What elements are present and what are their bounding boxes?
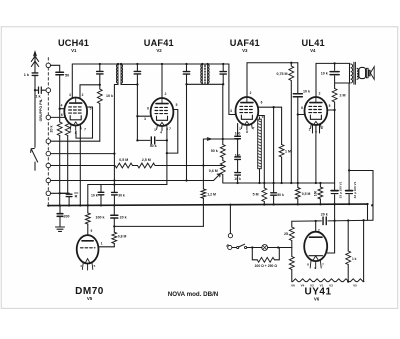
V4 plate lead: [315, 63, 317, 97]
svg-text:9: 9: [91, 229, 93, 233]
svg-text:1: 1: [154, 128, 156, 132]
svg-text:0,75 M: 0,75 M: [277, 72, 288, 76]
wire T2 cap down to AF line: [186, 84, 188, 180]
wire plate rail 3 (V4): [316, 62, 350, 64]
capacitor R: [68, 192, 70, 195]
terminal circle y=141.2: [46, 139, 51, 144]
terminal circle y=180.5: [46, 178, 51, 183]
svg-text:20 k: 20 k: [120, 215, 127, 219]
resistor 0,5M horizontal: [115, 163, 133, 168]
svg-text:1 k: 1 k: [24, 73, 30, 77]
svg-text:100 k: 100 k: [96, 216, 105, 220]
wire antenna down: [34, 76, 36, 148]
svg-text:6: 6: [301, 106, 303, 110]
svg-text:2: 2: [318, 229, 320, 233]
resistor 100k: [87, 205, 89, 213]
svg-text:5: 5: [329, 104, 331, 108]
wire T1 to V2 grid: [136, 85, 138, 141]
svg-text:8: 8: [246, 130, 248, 134]
svg-text:4: 4: [160, 131, 162, 135]
wire cathode bias row y=184.5: [88, 185, 167, 206]
wire DM70 pin1: [98, 246, 114, 248]
wire V1 feedback hook: [76, 107, 93, 138]
wire V3 pin6 AVC: [258, 106, 281, 108]
wire resistors down: [60, 136, 69, 206]
svg-text:V3: V3: [242, 48, 248, 53]
IF transformer T2: [202, 63, 207, 66]
wire rail to V3 grid: [229, 64, 236, 115]
wire x=273.6 down: [273, 107, 275, 183]
V1 pin2 lead: [80, 85, 100, 98]
wire row y=180.5: [51, 180, 214, 182]
wire right branch: [349, 171, 373, 221]
terminal circle y=193.3: [46, 191, 51, 196]
ground bus: [48, 204, 367, 206]
svg-text:100 Ω + 250 Ω: 100 Ω + 250 Ω: [255, 264, 278, 268]
tube V4 UL41: [305, 97, 328, 130]
svg-text:10 k: 10 k: [321, 72, 328, 76]
capacitor 160 a: [237, 124, 239, 136]
svg-text:5 M: 5 M: [253, 193, 259, 197]
capacitor T2 secondary: [222, 64, 224, 71]
wire V4 grid: [297, 113, 299, 115]
ballast resistor 100+250 ohm: [252, 248, 257, 260]
svg-text:0,5 M: 0,5 M: [302, 192, 311, 196]
capacitor 20k f: [322, 217, 324, 225]
svg-text:6: 6: [147, 107, 149, 111]
svg-text:33 µ 150 V1: 33 µ 150 V1: [339, 181, 343, 198]
B+ line y=221: [292, 220, 373, 221]
resistor 0,5M grid leak: [297, 115, 299, 188]
wire grid V1: [51, 116, 65, 118]
wire bus end stub: [367, 204, 369, 220]
wire V1 pin4: [60, 109, 65, 122]
svg-text:30 k: 30 k: [118, 194, 125, 198]
svg-text:V4: V4: [310, 48, 316, 53]
terminal circle y=65.3: [46, 63, 51, 68]
wire T1 left coil down spine: [114, 83, 118, 84]
terminal circle y=90.2: [46, 88, 51, 93]
resistor 0,8M: [112, 232, 117, 243]
svg-text:1 M: 1 M: [285, 150, 291, 154]
wire T1 right coil down: [121, 83, 137, 85]
svg-text:50 k: 50 k: [277, 193, 284, 197]
svg-text:V5: V5: [87, 296, 93, 301]
wire V2 cathode down: [166, 128, 168, 185]
electrolytic 33u b: [348, 170, 350, 190]
resistor 25: [291, 221, 293, 227]
svg-text:7: 7: [322, 126, 324, 130]
wire V4 cathode down: [315, 125, 317, 183]
terminal circle y=165.5: [46, 163, 51, 168]
svg-text:UAF41: UAF41: [230, 38, 260, 48]
capacitor 10k coupling V4: [297, 63, 299, 93]
svg-text:1 k: 1 k: [352, 257, 357, 261]
resistor 50k: [222, 139, 224, 145]
svg-text:R: R: [75, 195, 78, 199]
V3 plate lead: [246, 63, 248, 97]
mains input wire: [229, 205, 231, 234]
svg-text:6: 6: [61, 113, 63, 117]
capacitor 10k d: [100, 185, 102, 193]
terminal circle y=117.4: [46, 115, 51, 120]
svg-text:2 M: 2 M: [340, 94, 346, 98]
tube V3 UAF41: [236, 97, 259, 130]
resistor 1k heater: [346, 251, 351, 265]
svg-text:2: 2: [319, 92, 321, 96]
wire diode load y=139: [203, 138, 237, 140]
wire heater return: [363, 220, 365, 281]
svg-text:10 k: 10 k: [234, 177, 241, 181]
wire plate rail 2 (V3): [247, 62, 298, 64]
svg-text:1: 1: [101, 242, 103, 246]
svg-text:20 k: 20 k: [50, 126, 54, 133]
pot wiper arrow: [214, 174, 221, 181]
tube V2 UAF41: [151, 98, 174, 131]
electrolytic 33u a: [331, 190, 338, 192]
svg-text:V6: V6: [314, 297, 320, 302]
svg-text:160: 160: [235, 132, 241, 136]
svg-text:UAF41: UAF41: [144, 38, 174, 48]
mains terminal b: [228, 245, 232, 249]
svg-text:50 k: 50 k: [150, 144, 157, 148]
svg-text:1: 1: [239, 127, 241, 131]
wire row y=153.6: [51, 153, 115, 155]
svg-text:160: 160: [313, 191, 317, 197]
band switch S: [31, 148, 38, 170]
mains terminal a: [228, 234, 232, 238]
svg-text:1: 1: [309, 128, 311, 132]
svg-text:6: 6: [261, 101, 263, 105]
svg-text:3: 3: [230, 109, 232, 113]
wire T2 bottom: [187, 83, 224, 84]
pilot lamp: [262, 245, 268, 251]
wire row y=165.5 volume: [51, 165, 115, 167]
ground: [56, 226, 65, 228]
resistor 1M: [281, 107, 283, 144]
capacitor 20k e: [113, 205, 115, 215]
svg-text:10 k: 10 k: [106, 94, 113, 98]
capacitor T2 primary: [186, 64, 188, 71]
resistor heater dropper: [291, 248, 293, 257]
svg-text:3: 3: [325, 249, 327, 253]
capacitor 200: [59, 205, 61, 213]
resistor 160: [319, 183, 321, 187]
wire V2 pin5 box: [167, 110, 178, 154]
capacitor 30k: [112, 191, 118, 193]
resistor 2M: [332, 89, 337, 103]
wire row y=193.3: [51, 192, 70, 194]
svg-text:32 µ 160 V1: 32 µ 160 V1: [353, 181, 357, 198]
resistor 1,2M: [202, 139, 204, 189]
svg-text:2: 2: [165, 92, 167, 96]
detector coil hatched: [259, 117, 261, 119]
svg-text:5: 5: [176, 103, 178, 107]
signal rail y=183: [223, 182, 335, 184]
capacitor 1k antenna: [34, 71, 36, 73]
svg-text:7: 7: [169, 127, 171, 131]
potentiometer 0,6M: [220, 161, 225, 175]
svg-text:20 k: 20 k: [321, 213, 328, 217]
output transformer: [349, 63, 351, 83]
capacitor 50k cathode: [137, 139, 150, 141]
svg-text:50: 50: [65, 73, 69, 77]
svg-text:4: 4: [61, 104, 63, 108]
svg-text:1,2 M: 1,2 M: [207, 192, 216, 196]
svg-text:V5: V5: [353, 283, 357, 287]
svg-text:UL41: UL41: [302, 38, 325, 48]
V1 pin3 lead = rail corner: [71, 64, 73, 98]
power switch: [232, 247, 237, 249]
resistor 10k: [97, 89, 102, 104]
capacitor 160 b: [235, 156, 241, 158]
wire plate rail 1: [72, 63, 229, 65]
svg-text:2,5 M: 2,5 M: [142, 158, 151, 162]
capacitor 50k b: [273, 183, 275, 192]
capacitor T1 primary: [99, 64, 101, 71]
speaker: [357, 68, 358, 79]
svg-text:0,5 M: 0,5 M: [119, 158, 128, 162]
svg-text:0,8 M: 0,8 M: [118, 235, 127, 239]
tube V5 DM70: [77, 235, 99, 270]
IF transformer T1: [118, 63, 121, 66]
resistor 20k a: [57, 122, 62, 136]
resistor 5M: [263, 183, 265, 188]
svg-text:10 k: 10 k: [91, 194, 98, 198]
capacitor 10k output: [330, 71, 339, 73]
wire V3 pin5 diode: [258, 116, 265, 184]
svg-text:10 k: 10 k: [303, 90, 310, 94]
svg-text:2: 2: [250, 91, 252, 95]
capacitor T1 secondary: [136, 64, 138, 71]
svg-text:V6: V6: [291, 283, 295, 287]
capacitor 10k c: [235, 172, 241, 174]
tube V6 UY41: [304, 232, 327, 269]
svg-text:3: 3: [69, 93, 71, 97]
svg-text:V2: V2: [156, 48, 162, 53]
svg-text:0,6 M: 0,6 M: [209, 169, 218, 173]
resistor 2,5M horizontal: [138, 163, 156, 168]
wire V1 cathode down: [79, 126, 81, 205]
svg-text:50 k: 50 k: [211, 149, 218, 153]
svg-text:UCH41: UCH41: [58, 38, 89, 48]
resistor 0,75M: [290, 62, 292, 64]
resistor 20k b: [67, 121, 69, 122]
svg-text:160: 160: [235, 153, 241, 157]
tuner group dashed boundary: [47, 58, 49, 205]
heater spine right: [347, 221, 349, 251]
terminal circle y=153.6: [46, 151, 51, 156]
svg-text:200: 200: [64, 215, 70, 219]
svg-text:25: 25: [284, 232, 288, 236]
wire grid return y=226.4: [114, 225, 203, 227]
svg-text:GRUPPO PN-: GRUPPO PN-: [39, 98, 43, 122]
capacitor 50 osc: [51, 65, 60, 71]
svg-text:3: 3: [144, 117, 146, 121]
B+ spine x=334.6: [333, 62, 335, 64]
V4 bottom leads: [313, 125, 320, 133]
V2 plate lead: [161, 64, 163, 98]
svg-text:2: 2: [82, 93, 84, 97]
tube V1 UCH41: [64, 98, 87, 131]
svg-text:1 k: 1 k: [35, 95, 41, 99]
wire row y=141.2: [51, 140, 100, 142]
wire OT to filter: [348, 83, 350, 170]
svg-text:7: 7: [253, 127, 255, 131]
heater chain: [292, 279, 364, 282]
V6 plate lead: [315, 221, 317, 232]
capacitor 1k coupling: [35, 89, 39, 91]
wire AVC spine x=222.8: [222, 84, 224, 139]
antenna: [31, 52, 38, 72]
V6 anode 2 wire: [327, 252, 334, 254]
svg-text:NOVA mod. DB/N: NOVA mod. DB/N: [168, 291, 219, 298]
svg-text:V1: V1: [71, 48, 77, 53]
wire V4 pin5: [327, 109, 334, 111]
svg-text:7: 7: [84, 128, 86, 132]
